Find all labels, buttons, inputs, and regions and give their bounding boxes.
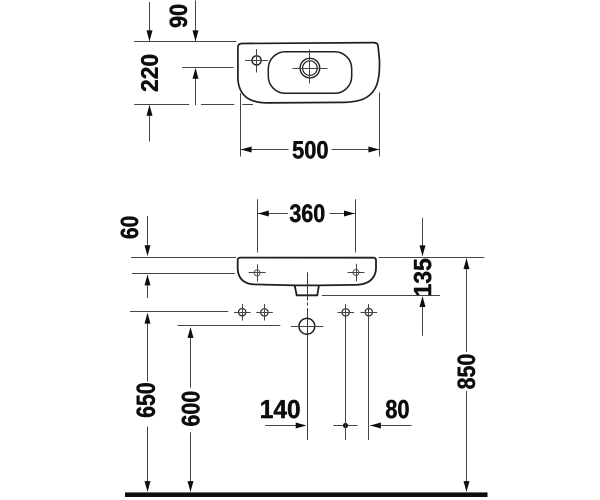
wire: right reference line (basin top level) bbox=[379, 257, 485, 259]
wire: drain-center reference line (left) bbox=[178, 325, 281, 327]
label 140 bbox=[261, 400, 299, 418]
label 360 bbox=[290, 204, 324, 222]
wire: 90-dim upper arrow line bbox=[195, 1, 197, 41]
wire: 500-dim right extension bbox=[379, 93, 381, 157]
floor line bbox=[125, 492, 488, 497]
drain (plan) bbox=[300, 58, 320, 78]
wire: 360-dim left extension bbox=[257, 199, 259, 252]
basin outer outline (plan) bbox=[238, 43, 380, 103]
label 220 bbox=[141, 55, 158, 91]
label 90 bbox=[170, 5, 188, 27]
wire: 600 dimension line bbox=[190, 329, 192, 388]
basin inner bowl (plan) bbox=[268, 52, 351, 94]
wire: drain-center reference line bbox=[182, 67, 233, 69]
wire: 140 dimension line with right arrow bbox=[265, 425, 305, 427]
wire: left reference line (60 below) bbox=[132, 273, 235, 275]
wire: 360-dim right extension bbox=[355, 199, 357, 252]
wire: 60-dim upper arrow line bbox=[147, 216, 149, 255]
wire: basin bottom edge across outlet bbox=[294, 284, 321, 286]
fixing hole 4 bbox=[365, 309, 372, 316]
wire: front-edge reference line segments bbox=[134, 104, 189, 106]
wire: 135-dim lower arrow line bbox=[422, 297, 424, 336]
wire: 90-dim lower arrow line bbox=[195, 69, 197, 106]
mounting hole right (front) bbox=[353, 270, 359, 276]
faucet hole (plan) bbox=[252, 56, 261, 65]
wire: left reference line (basin top level) bbox=[131, 257, 236, 259]
wire: top reference line (wall line) bbox=[134, 41, 236, 43]
label 135 bbox=[414, 259, 432, 295]
label 600 bbox=[182, 392, 200, 426]
wire: 360 dimension line bbox=[258, 213, 288, 215]
wire: 500 dimension line bbox=[241, 149, 289, 151]
wire: 500-dim left extension bbox=[240, 93, 242, 156]
mounting hole left (front) bbox=[254, 270, 260, 276]
wire: 90-dim upper arrow line left (220 dim) bbox=[149, 2, 151, 41]
wire: 650 dimension line bbox=[147, 314, 149, 382]
wire: hole-4 extension line bbox=[368, 318, 370, 440]
wire: drain centerline (front) bbox=[307, 272, 309, 300]
label 500 bbox=[293, 141, 328, 159]
wire: 80 dimension line with dot bbox=[333, 425, 357, 427]
label 650 bbox=[137, 383, 156, 417]
wire: 60-dim lower arrow line bbox=[147, 275, 149, 298]
basin front outline bbox=[238, 258, 376, 296]
wire: fixing holes reference line (left) bbox=[130, 311, 228, 313]
drain trap circle (front) bbox=[299, 318, 315, 334]
fixing hole 2 bbox=[261, 309, 268, 316]
wire: outlet bottom reference line bbox=[322, 295, 440, 297]
fixing hole 3 bbox=[342, 309, 349, 316]
wire: 135-dim upper arrow line bbox=[422, 218, 424, 256]
wire: 850 dimension line bbox=[466, 259, 468, 352]
wire: 220-dim lower arrow line bbox=[149, 106, 151, 142]
label 80 bbox=[386, 400, 409, 418]
label 850 bbox=[458, 355, 476, 389]
fixing hole 1 bbox=[239, 309, 246, 316]
wire: 80 arrow line bbox=[370, 425, 412, 427]
wire: hole-3 extension line bbox=[345, 318, 347, 440]
label 60 bbox=[121, 217, 139, 239]
